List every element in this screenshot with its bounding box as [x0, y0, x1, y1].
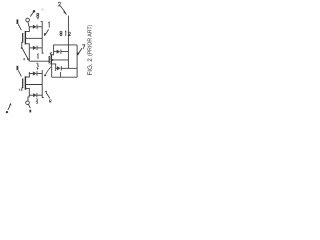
transistor Q3 drain lead [26, 72, 30, 77]
transistor Q3 source lead [26, 88, 30, 97]
transistor Q2 source down to ground rail [50, 65, 52, 77]
leader arrow for label near ground [46, 93, 50, 99]
diode D5 (pointing right) [33, 71, 42, 75]
label 21 arrowhead [44, 33, 46, 36]
label 2 arrowhead [63, 11, 66, 15]
diode D4 (pointing right) [56, 66, 77, 70]
transistor Q1 channel bar [24, 31, 26, 45]
tick near gate wire corner [24, 58, 25, 60]
label 18 numeral [17, 19, 19, 24]
wire node B to Q2 gate [29, 60, 49, 62]
wire node B vertical (Q1 source down to gate rail) [28, 48, 30, 61]
label numeral below output circle [29, 110, 31, 113]
leader arrow for label 2 (top-right, curved) [60, 6, 66, 15]
arrowhead pointing at Q2 gate bar top [50, 52, 53, 55]
label 24 numeral (left of Q3) [17, 66, 19, 70]
leader arrow for label 9 to terminal [30, 12, 33, 16]
diode D2 (pointing right) with anode wire [29, 46, 42, 50]
diode D1 (body diode of Q1, pointing right) [33, 25, 42, 29]
leader arrow for label 21 [45, 29, 49, 35]
wire stub from rail up under D4 [60, 72, 62, 77]
faint speck [42, 9, 44, 11]
svg-text:FIG. 2: FIG. 2 [87, 58, 94, 76]
transistor Q2 drain lead up [51, 45, 53, 55]
wire from terminal down to node A [28, 22, 29, 27]
label 15 numeral (near ground rail) [49, 99, 51, 102]
transistor Q1 gate lead down [21, 42, 24, 47]
label 9 numeral dot [33, 10, 36, 13]
leader arrow for label 24 (left of Q3) [18, 70, 21, 76]
bus VSS vertical (node 2 line) [67, 16, 69, 69]
label 12 numeral (on VSS bus) [64, 31, 67, 36]
output arrowhead [77, 52, 79, 55]
transistor Q1 gate bar [22, 33, 24, 43]
leader curve for label 14 [46, 67, 51, 74]
wire Q3 source to output terminal [28, 97, 29, 101]
label 14 leader dot (next to well bus B3) [44, 74, 46, 76]
well bus B1 (upper-left vertical) [41, 22, 44, 54]
diode D6 (pointing right) [33, 93, 42, 97]
transistor Q3 gate bar [22, 78, 24, 88]
svg-text:(PRIOR ART): (PRIOR ART) [88, 24, 94, 56]
label 13 arrowhead [37, 68, 39, 70]
transistor Q2 gate bar [48, 56, 50, 63]
wire Q3 drain to diode D5 [29, 73, 33, 75]
wire Q1 body tap to well bus B1 [26, 37, 42, 39]
tick near Q3 gate [19, 88, 20, 90]
leader line label 16 tail to circle [28, 104, 30, 108]
wire Q1 gate to node B (diagonal) [22, 48, 29, 61]
transistor Q2 channel bar [50, 54, 52, 65]
label 13 numeral (below node B wire) [36, 63, 38, 67]
wire Q2 body tap to bus [52, 59, 69, 61]
diode D3 (pointing right) from Q2 drain [54, 49, 69, 53]
label 10 numeral (above node B wire) [36, 54, 38, 59]
transistor Q1 drain lead [26, 27, 30, 32]
leader arrow for output label (right) [78, 48, 82, 55]
transistor Q3 gate lead down [22, 88, 23, 91]
label 8 numeral (left of VSS bus) [60, 31, 62, 35]
wire top rail (node 2 bus to output corner) [53, 44, 77, 46]
ground rail bottom [52, 76, 77, 78]
junction dot Q2 body [51, 59, 53, 61]
well bus B3 (lower-left vertical) [42, 70, 44, 98]
label 7 numeral (right output) [82, 45, 85, 49]
label 16 numeral (bottom-left) [6, 111, 8, 113]
label 15 arrowhead [45, 91, 47, 93]
wire Q3 source tap to diode D6 [29, 94, 33, 96]
arrowhead at end of Q1 gate diagonal [27, 58, 29, 61]
node 18 input terminal (open circle, top-left) [26, 18, 30, 22]
transistor Q2 source lead right to D4 [51, 64, 55, 71]
label 21 numeral [47, 22, 50, 28]
wire node A to diode D1 anode [29, 26, 33, 28]
label 2 numeral (top-right) [58, 2, 61, 6]
wire right output vertical [76, 45, 78, 77]
label 22 numeral under D6 bar [36, 99, 38, 104]
leader arrow for label 18 (top-left) [18, 24, 21, 30]
label 8 arrowhead [37, 18, 39, 20]
figure caption FIG. 2 (PRIOR ART), rotated [87, 24, 94, 75]
wire Q3 body tap to well bus B3 [26, 84, 42, 86]
label 16 arrowhead [10, 103, 12, 106]
node 16 output terminal (open circle, bottom-left) [26, 101, 30, 105]
leader arrow bottom-left label 16 [8, 104, 11, 110]
transistor Q3 channel bar [24, 76, 26, 90]
label 8 numeral (above well bus B1) [37, 13, 39, 17]
transistor Q1 source lead [26, 44, 30, 48]
